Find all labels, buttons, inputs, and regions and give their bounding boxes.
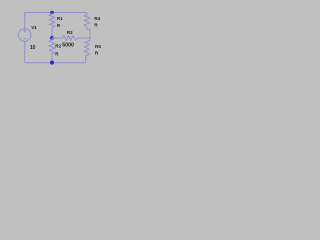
svg-text:R: R	[55, 52, 59, 57]
svg-text:10: 10	[30, 45, 36, 51]
resistor R4	[84, 13, 90, 28]
wire middle to R3	[52, 37, 63, 39]
resistor R5	[84, 40, 90, 63]
svg-text:5000: 5000	[62, 42, 74, 48]
wire V1 top lead	[24, 13, 26, 29]
voltage source V1	[18, 29, 31, 42]
svg-text:R2: R2	[55, 44, 61, 49]
wire R4 bottom jog	[87, 27, 90, 40]
resistor R3	[63, 36, 78, 41]
svg-text:R4: R4	[94, 16, 100, 21]
svg-text:R5: R5	[95, 44, 101, 49]
node junction middle (R1/R2/R3)	[50, 36, 54, 40]
wire top rail	[25, 12, 87, 14]
node junction top (R1/top rail)	[50, 11, 54, 15]
svg-text:R1: R1	[57, 16, 63, 21]
svg-text:R3: R3	[67, 30, 73, 35]
svg-text:V1: V1	[31, 25, 37, 30]
resistor R1	[49, 13, 55, 39]
wire bottom rail	[25, 62, 86, 64]
svg-text:R: R	[95, 51, 99, 56]
resistor R2	[49, 38, 55, 63]
node junction bottom (R2/bottom rail)	[50, 61, 54, 65]
svg-text:R: R	[57, 23, 61, 28]
svg-text:R: R	[94, 22, 98, 27]
wire V1 bottom lead	[24, 41, 26, 62]
wire R3 to right column	[78, 37, 91, 39]
